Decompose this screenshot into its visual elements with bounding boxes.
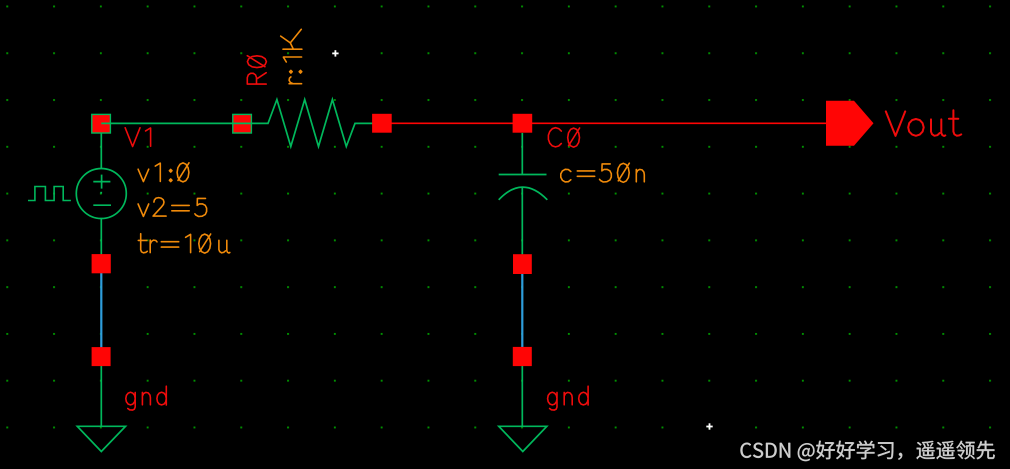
- output pin Vout (red pentagon): [826, 101, 874, 146]
- pin square C0 bottom terminal: [513, 254, 532, 274]
- label c=50n: [561, 163, 645, 182]
- pin square S1 V1 plus terminal: [92, 114, 111, 133]
- ground symbol gnd2: [499, 426, 547, 451]
- wire gnd1 lead: [100, 366, 102, 426]
- pin square gnd2: [513, 347, 532, 366]
- label v1:0: [138, 163, 189, 182]
- resistor R0: [252, 100, 377, 147]
- label tr=10u: [138, 234, 230, 253]
- wire net Vout from R0 to output pin (red): [378, 122, 827, 124]
- voltage source V1: [76, 133, 126, 255]
- label C0: [548, 128, 579, 147]
- label V1: [125, 128, 150, 147]
- pin square S2 R0 left pin: [233, 114, 252, 133]
- capacitor C0: [499, 133, 548, 255]
- wire blue net V1 minus to gnd: [100, 263, 102, 357]
- square-wave icon of V1: [28, 187, 71, 201]
- junction square right of R0: [372, 114, 392, 133]
- label gnd (right): [548, 386, 589, 410]
- wire net from V1 plus to R0 (green): [101, 122, 252, 124]
- label r:1K (rotated): [281, 29, 302, 83]
- pin square V1 minus terminal: [92, 254, 111, 273]
- wire blue net C0 bottom to gnd: [521, 264, 523, 357]
- origin marker cross near R0: [332, 50, 338, 56]
- watermark CSDN @好好学习，遥遥领先: [741, 441, 995, 462]
- label R0 (rotated): [247, 56, 266, 84]
- label v2=5: [138, 198, 207, 217]
- label Vout: [886, 110, 961, 136]
- ground symbol gnd1: [77, 426, 125, 451]
- label gnd (left): [126, 386, 167, 410]
- pin square gnd1: [92, 347, 111, 366]
- wire gnd2 lead: [521, 366, 523, 426]
- junction square at C0 top: [513, 114, 533, 133]
- origin marker cross near gnd2: [706, 423, 712, 429]
